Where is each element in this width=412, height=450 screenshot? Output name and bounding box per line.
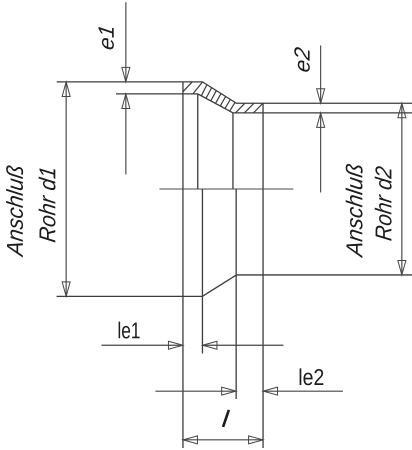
dim e1 line upper xyxy=(125,2,127,82)
arrow d2 top xyxy=(398,103,406,118)
dim d2 line xyxy=(401,103,403,275)
label e2 xyxy=(294,47,310,72)
wire inner top contour: big bore, inner taper, small bore xyxy=(116,94,412,113)
hatching, small-end wall band xyxy=(235,103,244,113)
arrow le2 right-pointing xyxy=(222,387,237,395)
wire outer taper start edge (below centerline, + le1 extension) xyxy=(201,189,203,353)
arrowheads (open) xyxy=(62,67,406,444)
dim e2 line upper xyxy=(320,45,322,103)
centerline xyxy=(159,188,293,190)
arrow l right xyxy=(249,436,264,444)
dim e1 line lower xyxy=(125,94,127,175)
dim le2 line right xyxy=(263,390,343,392)
arrow d1 bottom xyxy=(62,282,70,297)
wire outer taper end edge (below centerline, + le2 extension) xyxy=(235,189,237,399)
hatching, taper wall band xyxy=(201,85,207,96)
hatching, big-end wall band xyxy=(183,82,192,92)
wire outer top contour: big pipe top, taper, small pipe top xyxy=(57,82,412,103)
arrow e2 down xyxy=(317,89,325,104)
node joint line d2 side (fitting right end face + extension) xyxy=(262,103,264,448)
arrow le1 left-pointing xyxy=(202,341,217,349)
arrow d2 bottom xyxy=(398,260,406,275)
arrow le1 right-pointing xyxy=(168,341,183,349)
dim d1 line xyxy=(65,82,67,297)
label Anschluss d2 xyxy=(346,164,363,258)
dim le1 line right xyxy=(202,344,283,346)
label le1 xyxy=(119,322,140,339)
label l xyxy=(223,410,229,427)
dim le1 line left xyxy=(101,344,183,346)
dim e2 line lower xyxy=(320,113,322,193)
wire inner taper start edge xyxy=(197,94,199,189)
arrow l left xyxy=(183,436,198,444)
dimension lines xyxy=(66,2,402,440)
node joint line d1 side (fitting left end face + extension) xyxy=(182,82,184,448)
label Rohr d2 xyxy=(375,166,392,241)
label e1 xyxy=(99,27,114,49)
arrow le2 left-pointing xyxy=(263,387,278,395)
dim l line xyxy=(183,439,263,441)
label Rohr d1 xyxy=(39,168,56,242)
arrow d1 top xyxy=(62,82,70,97)
arrow e1 up xyxy=(122,94,130,109)
dim le2 line left xyxy=(155,390,236,392)
arrow e1 down xyxy=(122,67,130,82)
label le2 xyxy=(300,368,324,385)
wire outer bottom contour: big pipe bottom, taper, small pipe bottom xyxy=(57,275,412,296)
arrow e2 up xyxy=(317,113,325,128)
label Anschluss d1 xyxy=(6,165,23,257)
wire inner taper end edge xyxy=(232,113,234,189)
